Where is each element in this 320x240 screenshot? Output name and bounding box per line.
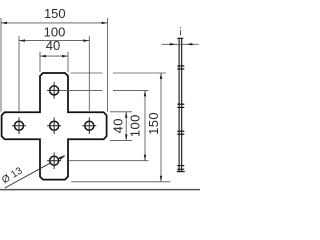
dim 150 top bbox=[1, 18, 108, 112]
dim 40 top bbox=[40, 52, 68, 73]
side view thickness dim bbox=[162, 43, 199, 45]
dim 150 right (vertical) bbox=[71, 73, 171, 182]
bottom frame line bbox=[0, 189, 200, 191]
svg-text:150: 150 bbox=[146, 112, 161, 135]
svg-text:100: 100 bbox=[128, 114, 143, 137]
svg-text:40: 40 bbox=[46, 38, 60, 53]
hole top bbox=[50, 86, 59, 95]
hole right bbox=[85, 121, 94, 130]
side view hole marks bbox=[177, 66, 185, 172]
dim 100 top bbox=[19, 36, 89, 112]
side view strip bbox=[177, 38, 183, 172]
dim 40 right (vertical) bbox=[110, 112, 132, 141]
svg-text:40: 40 bbox=[111, 118, 126, 133]
svg-text:150: 150 bbox=[44, 6, 66, 21]
diameter label Ø13 bbox=[5, 163, 50, 188]
side view: centerline top bbox=[179, 27, 181, 35]
hole left bbox=[15, 121, 24, 130]
hole bottom bbox=[50, 156, 59, 165]
cross plate outline bbox=[2, 73, 107, 180]
hole center bbox=[50, 121, 59, 130]
dim 100 right (vertical) bbox=[59, 90, 149, 160]
